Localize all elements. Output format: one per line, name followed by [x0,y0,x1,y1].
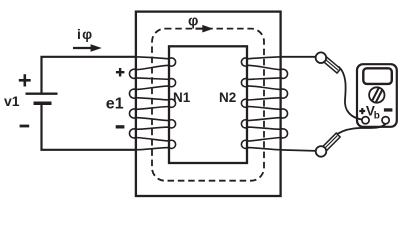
probe tip (bottom) [323,133,340,150]
wire top-left from source to transformer [42,57,137,93]
transformer core outer box [136,12,281,196]
minus sign of source [20,125,30,128]
svg-text:φ: φ [188,14,198,30]
meter minus sign [384,108,393,111]
meter lead from bottom probe to right terminal [338,124,386,134]
svg-text:iφ: iφ [77,26,93,42]
voltmeter display [363,68,392,84]
wire secondary bottom to probe node [281,150,316,151]
meter lead from top probe to left terminal [339,67,362,120]
meter terminal right [382,117,389,124]
svg-text:v1: v1 [4,93,20,109]
voltage source v1 (battery) [26,94,58,104]
node circle top [316,52,327,63]
voltmeter dial [369,87,384,103]
wire bottom-left from source to transformer [42,104,137,150]
node circle bottom [316,146,327,157]
probe tip (top) [321,55,341,73]
svg-text:N1: N1 [173,90,191,105]
svg-text:b: b [374,111,380,122]
svg-text:N2: N2 [219,90,236,105]
voltmeter body [357,64,397,127]
flux arrow [196,25,214,33]
plus sign at e1 [116,68,125,77]
minus sign at e1 [116,125,125,128]
winding N2 (secondary coil, mirrored) [241,57,287,150]
plus sign of source [19,74,31,86]
winding N1 (primary coil) [129,57,175,150]
meter terminal left [362,117,369,124]
core window inner box [169,46,247,163]
meter plus sign [359,108,365,114]
current arrow [73,44,102,52]
wire secondary top to probe node [281,56,316,58]
meter label Vb [366,103,380,121]
flux dashed path [152,29,264,181]
svg-text:e1: e1 [106,95,124,112]
